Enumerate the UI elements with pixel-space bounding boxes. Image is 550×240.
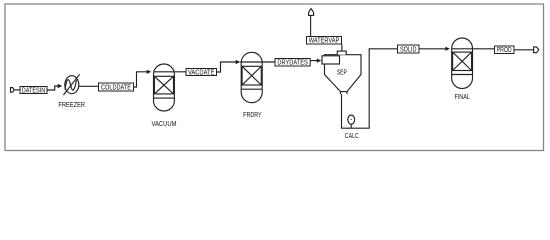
- svg-text:DRYDATES: DRYDATES: [277, 60, 308, 67]
- stream label VACDATE: [186, 69, 217, 77]
- svg-text:COLDDATE: COLDDATE: [101, 85, 131, 92]
- stream label DATESIN: [20, 87, 47, 95]
- wire PROD to product arrow: [514, 49, 534, 51]
- arrowhead into FINAL: [445, 47, 450, 51]
- svg-text:DATESIN: DATESIN: [22, 88, 46, 95]
- svg-text:CALC: CALC: [345, 133, 359, 140]
- svg-text:VACUUM: VACUUM: [152, 121, 177, 128]
- svg-text:VACDATE: VACDATE: [188, 70, 215, 77]
- wire SEP bottoms: down, right, up, across to product arrow: [342, 49, 447, 128]
- wire DRYDATES to SEP: [310, 60, 317, 62]
- wire through FINAL to PROD: [452, 48, 495, 50]
- svg-text:FINAL: FINAL: [454, 94, 470, 101]
- heater FREEZER: [63, 74, 79, 95]
- product arrow right PROD: [534, 47, 539, 53]
- block CALC: [348, 115, 355, 128]
- wire through VACUUM to VACDATE: [154, 71, 187, 73]
- product arrow top WATERVAP: [309, 9, 314, 16]
- stream label PROD: [495, 46, 515, 54]
- svg-text:FRDRY: FRDRY: [243, 112, 262, 119]
- svg-text:FREEZER: FREEZER: [58, 102, 85, 109]
- svg-text:SOLID: SOLID: [400, 47, 417, 54]
- column FRDRY: [241, 52, 262, 102]
- stream label WATERVAP: [307, 37, 342, 45]
- feed arrow DATESIN: [11, 88, 15, 93]
- svg-text:SEP: SEP: [337, 70, 347, 77]
- wire COLDDATE to VACUUM: [134, 72, 148, 87]
- svg-text:WATERVAP: WATERVAP: [309, 38, 340, 45]
- wire through FRDRY to DRYDATES: [240, 61, 275, 63]
- column FINAL: [452, 38, 473, 89]
- arrowhead into SEP: [317, 59, 322, 63]
- stream label COLDDATE: [99, 83, 134, 92]
- wire DATESIN to FREEZER: [47, 86, 58, 90]
- wire feed to DATESIN: [14, 89, 20, 91]
- separator SEP: [322, 51, 361, 94]
- stream label DRYDATES: [275, 59, 310, 67]
- arrowhead into FREEZER: [58, 84, 63, 88]
- wire FREEZER to COLDDATE: [79, 85, 99, 87]
- arrowhead into VACUUM: [147, 70, 152, 74]
- arrowhead into FRDRY: [236, 60, 241, 64]
- svg-text:PROD: PROD: [497, 47, 512, 54]
- column VACUUM: [154, 64, 175, 111]
- wire SEP vapor up (behind WATERVAP label): [341, 44, 343, 51]
- stream label SOLID: [398, 45, 420, 54]
- wire WATERVAP up to top arrow: [310, 15, 312, 36]
- wire VACDATE to FRDRY: [217, 62, 237, 72]
